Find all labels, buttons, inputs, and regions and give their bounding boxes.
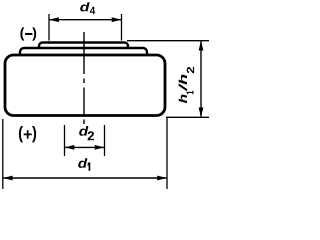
label d4 — [80, 2, 95, 14]
label d1 — [78, 158, 87, 168]
dimension d4: right extension line — [121, 14, 123, 41]
gasket middle plate — [20, 48, 147, 66]
button cell top cap (negative terminal plate) — [39, 43, 128, 59]
dimension d1: left extension line — [2, 119, 4, 189]
dimension d2: dimension line — [65, 146, 105, 148]
cell can body — [5, 55, 165, 116]
d1 right arrow — [157, 176, 167, 181]
label (+) — [19, 126, 36, 142]
dimension d4: dimension line — [49, 19, 122, 21]
d1 left arrow — [3, 176, 13, 181]
dimension h1/h2: top extension line — [127, 40, 209, 42]
dimension d2: left extension line — [64, 125, 66, 156]
label d2 — [79, 126, 94, 140]
d2 left arrow — [65, 145, 75, 150]
dimension d1: dimension line — [3, 177, 167, 179]
dimension h1/h2: dimension line — [200, 41, 202, 118]
dimension d1: right extension line — [166, 118, 168, 189]
h arrow up — [199, 41, 204, 51]
dimension d4: left extension line — [48, 14, 50, 41]
subscript 1 of d1 — [88, 162, 91, 171]
dimension h1/h2: bottom extension line — [166, 116, 209, 118]
d4 right arrow — [112, 17, 122, 22]
label h1/h2 (rotated) — [179, 67, 195, 103]
d2 right arrow — [95, 145, 105, 150]
h arrow down — [199, 108, 204, 118]
label (-) — [20, 27, 36, 40]
centerline — [83, 32, 85, 124]
d4 left arrow — [49, 17, 59, 22]
dimension d2: right extension line — [104, 125, 106, 156]
